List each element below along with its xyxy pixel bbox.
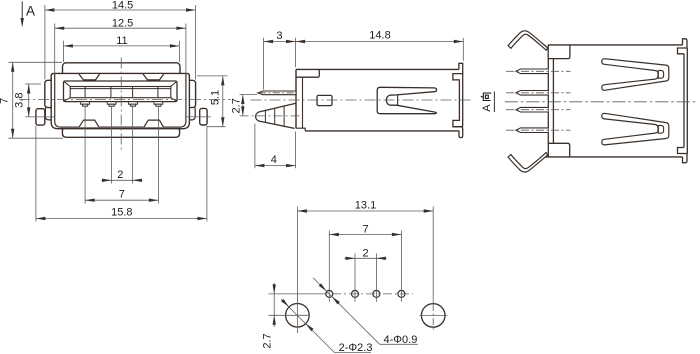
rear hook top [678,39,688,54]
usb opening outer frame [64,81,178,102]
boss ribs [265,106,284,127]
bottom bump right [144,120,164,127]
main shell inner wall [55,74,186,127]
inner wall line [302,77,304,128]
dim 14.5 [45,5,196,80]
contact strip lines [85,87,158,98]
usb opening inner frame [70,87,171,98]
rear hook bottom [678,148,688,163]
body top edge [548,44,682,46]
leader 4-phi0.9 [313,278,380,345]
upper fork contact [602,59,669,91]
svg-text:2: 2 [362,248,368,260]
body fill [296,69,463,128]
right view centerline [505,101,697,103]
hole B (big right) [421,304,445,328]
svg-text:14.5: 14.5 [112,0,133,12]
contact pad 4 [154,102,163,107]
dim 3 [264,38,296,90]
small hole 3 [373,290,380,297]
top mounting leg [508,31,548,50]
svg-text:13.1: 13.1 [355,199,376,211]
pin 3 [516,107,548,112]
dim 12.5 [55,24,186,75]
side view centerline [251,99,474,101]
pin 3 centerline [506,109,571,111]
hole A (big left) [286,304,310,328]
dim 11 [63,41,179,62]
bottom-left step [296,128,305,131]
bottom-left block [548,143,569,157]
svg-text:4-Φ0.9: 4-Φ0.9 [384,334,418,346]
dim 7 bottom [85,199,158,201]
lower fork inner cap [658,125,663,133]
dim 13.1 [297,207,433,334]
svg-text:A: A [26,4,35,19]
right tab centerline [186,116,211,118]
contact pad 1 [81,102,90,107]
pin 1 centerline [506,70,571,72]
retention hole [317,95,332,105]
svg-text:7: 7 [119,189,125,201]
small holes centerline [269,293,328,295]
pin 1 [516,69,548,74]
dim 7 fp [329,231,401,302]
svg-text:3: 3 [276,30,282,42]
top cutout right [143,74,164,80]
vertical centerline [120,58,122,150]
fork bend tick [397,95,399,106]
locating boss (bullet) [256,103,296,128]
main shell outer [51,73,189,128]
svg-text:7: 7 [363,223,369,235]
svg-text:A: A [481,104,493,112]
dim 14.8 [296,38,464,61]
svg-text:2: 2 [117,169,123,181]
svg-text:7: 7 [0,98,11,104]
dim 2.7 side [240,95,258,116]
view direction label A向 [481,92,495,113]
svg-text:14.8: 14.8 [369,30,390,42]
svg-text:5.1: 5.1 [210,90,222,105]
rear plate profile [453,63,463,137]
rear plate verticals [684,48,687,154]
dim 4 [255,124,296,169]
bottom mounting leg [508,153,548,172]
body bottom edge [543,156,683,158]
dim 15.8 [36,126,207,222]
small hole 1 [326,290,333,297]
section label A arrow [21,2,36,28]
dim 2 fp [345,254,387,302]
dim 2.7 fp [273,283,275,327]
contact pad 3 [129,102,138,107]
pin midline [259,92,295,94]
body outline [296,69,459,130]
opening bevel diagonals [64,82,176,101]
flange fold left [45,108,51,120]
left tab [36,109,45,125]
svg-text:11: 11 [116,35,127,47]
svg-text:4: 4 [271,154,277,166]
leader 2-phi2.3 [281,299,334,352]
contact pad 2 [107,102,116,107]
pin 2 centerline [506,92,571,94]
pin 4 [516,128,548,133]
small hole 4 [398,290,405,297]
top-left block [548,45,570,59]
dim 3.8 [25,84,41,117]
tongue edge line [70,88,171,90]
bottom plate [62,129,179,138]
left tab centerline [25,116,55,118]
side flange [45,80,196,107]
svg-text:15.8: 15.8 [111,207,132,219]
top-left step block [296,69,319,77]
flange fold right [189,108,195,120]
svg-text:2.7: 2.7 [230,98,242,113]
bottom bump left [79,120,99,127]
terminal pin (side) [258,91,296,95]
front plate double lines [548,59,553,144]
horizontal centerline [19,98,231,100]
top plate [63,63,181,78]
svg-text:2.7: 2.7 [262,333,274,348]
right tab [200,108,207,125]
small hole 2 [352,290,359,297]
svg-text:12.5: 12.5 [112,18,133,30]
top cutout left [79,74,100,80]
pin 4 centerline [506,129,571,131]
upper fork inner cap [658,70,663,78]
big circles horizontal marks [269,314,448,316]
boss centerline [240,115,303,117]
lower fork contact [602,113,669,145]
pad extension lines [85,107,158,204]
dim 7 left [9,62,64,138]
body fill [548,45,687,157]
dim 2 bottom [102,179,143,181]
svg-text:2-Φ2.3: 2-Φ2.3 [339,342,373,354]
svg-text:3.8: 3.8 [13,93,25,108]
dim 5.1 [197,76,228,127]
spring contact fork (side) [377,87,436,113]
pin 2 [516,91,548,96]
